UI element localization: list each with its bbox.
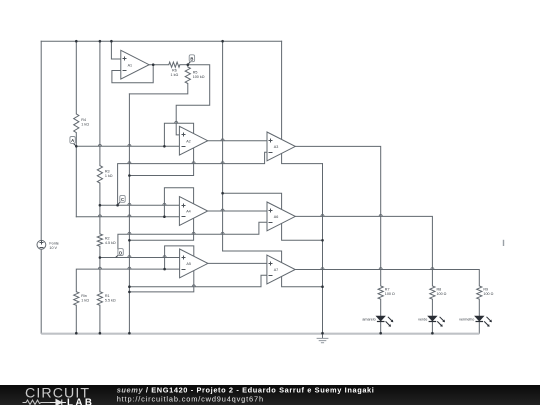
wire node B to R5 [187,65,189,67]
svg-text:A4: A4 [186,210,191,214]
ground symbol [317,334,329,343]
svg-text:100 Ω: 100 Ω [437,292,447,296]
resistor R5 100k zigzag [185,67,190,84]
svg-text:LAB: LAB [67,397,92,405]
svg-text:A6: A6 [274,215,279,219]
svg-text:R2: R2 [105,236,110,240]
svg-text:verde: verde [418,317,427,321]
wire A2 Vplus box [164,123,193,146]
wire A6 Vminus to right ground column [282,223,323,240]
wire node C stub and row to A3 minus input [118,152,267,205]
wire A4 Vplus box [164,188,193,217]
op-amp A1 [121,50,149,79]
wire A1 plus input from rail [111,41,120,59]
wire Rin branch and A5 minus row [76,269,179,333]
wire A5 Vminus to ground column [129,271,193,292]
resistor R9 100 zigzag [477,286,482,299]
wire R5 bottom to ground column [129,84,187,94]
wire A3 Vminus to right ground column [282,153,323,163]
svg-text:A5: A5 [186,262,191,266]
component value labels [49,68,493,321]
wire A4 Vminus to ground column [129,218,193,240]
wire top +10V rail [41,40,281,42]
node flag B [188,55,195,65]
svg-text:1 kΩ: 1 kΩ [81,299,89,303]
svg-text:R1: R1 [105,294,110,298]
wire node B loop to A2 plus input [176,65,210,135]
bottom ground rail [41,333,479,335]
wire A2 output to A3 plus input [208,140,267,142]
LED vermelho [475,316,492,327]
op-amp A6 [267,202,295,231]
stray cursor mark [503,240,504,246]
svg-text:vermelho: vermelho [459,317,474,321]
svg-text:1 kΩ: 1 kΩ [81,122,89,126]
op-amp A2 [179,126,207,155]
op-amp A7 [267,255,295,284]
op-amp A4 [179,197,207,226]
wire R8 to LED verde and rail [431,299,433,333]
wire Vplus drop column x=222 [222,41,224,251]
wire A1 feedback loop [112,65,153,83]
node flag A [70,137,76,147]
svg-text:100 kΩ: 100 kΩ [193,75,205,79]
wire R6 to node B [180,64,188,66]
resistor R8 100 zigzag [430,286,435,299]
wire node D stub and row to A6 minus input [118,222,267,249]
wire A3 Vplus from rail [281,41,283,139]
svg-text:1 kΩ: 1 kΩ [171,73,179,77]
wire right ground column x=322 [322,164,324,334]
wire R7 to LED amarelo and rail [380,299,382,333]
wire node C row to A4 plus input [100,204,179,206]
svg-text:http://circuitlab.com/cwd9u4qv: http://circuitlab.com/cwd9u4qvgt67h [117,394,264,403]
svg-text:Rin: Rin [81,294,87,298]
wire left ground column x=129 [128,94,130,333]
svg-text:1 kΩ: 1 kΩ [105,174,113,178]
svg-text:R7: R7 [385,287,390,291]
svg-text:10 V: 10 V [49,246,57,250]
wire A6 output to R8 branch [295,216,432,286]
svg-text:C: C [121,197,124,202]
svg-text:suemy / ENG1420 - Projeto 2 -: suemy / ENG1420 - Projeto 2 - Eduardo Sa… [117,385,375,394]
wire node D row to A5 plus input [100,257,180,259]
wire hop bumps [98,121,434,286]
svg-text:A3: A3 [274,145,279,149]
svg-text:R4: R4 [81,118,86,122]
LED amarelo [376,316,393,327]
resistor R3 1k zigzag [97,166,102,183]
logo diode [50,400,66,405]
svg-text:A1: A1 [128,63,133,67]
svg-text:Fonte: Fonte [49,241,58,245]
op-amp A3 [267,132,295,161]
resistor R7 100 zigzag [378,286,383,299]
wire left supply column [40,41,42,333]
wire R9 to LED vermelho and rail [478,299,480,333]
node flag C [118,195,126,205]
svg-text:R6: R6 [172,68,177,72]
wire ladder column R3 R2 R1 [99,41,101,333]
svg-text:5.5 kΩ: 5.5 kΩ [105,299,116,303]
svg-text:R9: R9 [483,287,488,291]
LED verde [428,316,445,327]
svg-text:amarelo: amarelo [362,317,375,321]
svg-text:R8: R8 [437,287,442,291]
resistor Rin 1k zigzag [74,292,79,306]
wire A7 Vminus to right ground column [282,277,323,287]
wire A6 Vplus row [223,193,282,209]
svg-text:D: D [119,250,122,255]
svg-text:A: A [71,138,74,143]
voltage source Fonte 10V [37,240,46,249]
wire A2 Vminus to ground column [129,148,193,176]
node A column R4 branch [75,41,77,217]
svg-text:B: B [190,57,193,62]
svg-text:4.5 kΩ: 4.5 kΩ [105,241,116,245]
svg-text:R5: R5 [193,71,198,75]
wire A3 output to R7 branch [295,146,380,286]
wire node A row to A2 inverting input [76,145,179,147]
resistor R4 1k zigzag [74,114,79,133]
resistor R1 5.5k zigzag [97,292,102,306]
logo resistor zigzag [23,400,51,405]
wire node A to A4 inverting input [76,216,179,218]
resistor R2 4.5k zigzag [97,234,102,246]
svg-text:100 Ω: 100 Ω [483,292,493,296]
svg-text:A2: A2 [186,139,191,143]
svg-text:100 Ω: 100 Ω [385,292,395,296]
wire A5 output to A7 plus input [208,262,267,264]
wire A7 output to R9 branch [296,270,479,286]
wire A7 minus bracket to ground column [129,275,267,286]
wire A1 output to R6 [149,64,169,66]
wire A4 output to A6 plus input [208,210,267,212]
footer bar [0,385,540,405]
svg-text:R3: R3 [105,170,110,174]
wire A7 Vplus row [223,251,282,263]
node flag D [116,249,124,258]
op-amp A5 [180,249,208,278]
resistor R6 1k zigzag [169,62,180,67]
wire A5 Vplus box [165,246,194,269]
svg-text:A7: A7 [274,268,279,272]
